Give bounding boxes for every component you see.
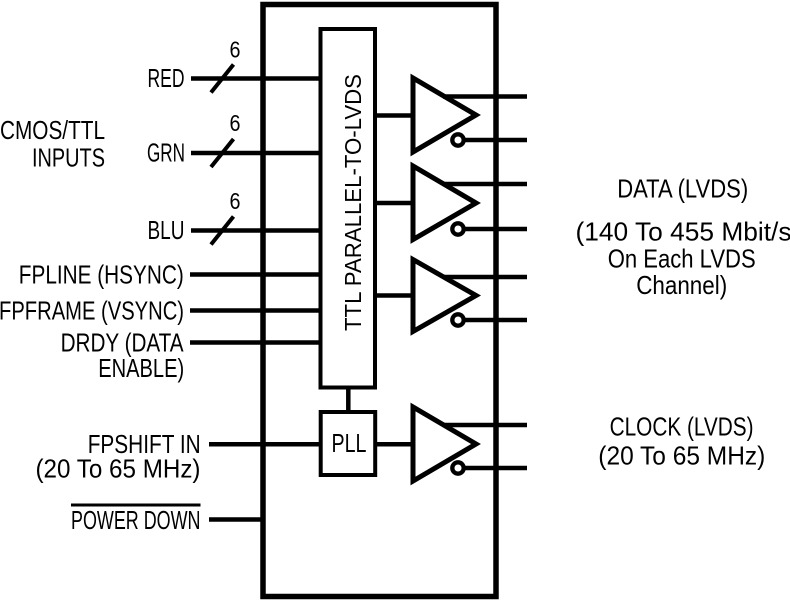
wire A3 output- [463, 318, 527, 323]
svg-text:ENABLE): ENABLE) [98, 353, 184, 383]
wire A2 output+ [443, 182, 527, 187]
wire block-to-A2 [373, 201, 414, 206]
wire A4 output+ [443, 423, 527, 428]
wire block-to-PLL [346, 388, 351, 412]
wire block-to-A3 [373, 293, 414, 298]
bus slash BLU [211, 217, 234, 245]
wire RED input [191, 76, 321, 81]
buffer A3 [413, 260, 476, 332]
svg-text:6: 6 [230, 188, 241, 214]
chip outline U1 [263, 5, 496, 597]
svg-text:RED: RED [148, 63, 185, 93]
wire A1 output+ [443, 94, 527, 99]
svg-text:6: 6 [230, 110, 241, 136]
wire FPFRAME input [190, 308, 321, 313]
bubble A3 [452, 314, 463, 325]
bubble A4 [452, 462, 463, 473]
wire POWER DOWN input [209, 517, 265, 522]
svg-text:Channel): Channel) [636, 270, 727, 300]
svg-text:TTL PARALLEL-TO-LVDS: TTL PARALLEL-TO-LVDS [340, 74, 366, 331]
wire PLL-to-A4 [375, 442, 414, 447]
svg-text:(140 To 455 Mbit/s: (140 To 455 Mbit/s [576, 217, 790, 247]
svg-text:INPUTS: INPUTS [32, 143, 105, 173]
overline POWER DOWN [71, 504, 201, 507]
wire A3 output+ [443, 275, 527, 280]
wire A2 output- [463, 227, 527, 232]
svg-text:(20 To 65 MHz): (20 To 65 MHz) [598, 441, 765, 471]
svg-text:CLOCK (LVDS): CLOCK (LVDS) [610, 412, 754, 442]
svg-text:6: 6 [230, 37, 241, 63]
svg-text:GRN: GRN [147, 138, 185, 168]
svg-text:CMOS/TTL: CMOS/TTL [0, 115, 105, 145]
buffer A4 clock [413, 407, 476, 481]
svg-text:FPFRAME (VSYNC): FPFRAME (VSYNC) [0, 296, 184, 326]
bubble A1 [452, 134, 463, 145]
svg-text:POWER DOWN: POWER DOWN [71, 505, 201, 535]
svg-text:FPLINE (HSYNC): FPLINE (HSYNC) [19, 260, 184, 290]
svg-text:PLL: PLL [332, 428, 367, 458]
wire BLU input [191, 228, 321, 233]
wire DRDY input [190, 340, 321, 345]
TTL parallel-to-LVDS block [321, 29, 376, 388]
bus slash RED [211, 65, 234, 93]
bubble A2 [452, 223, 463, 234]
svg-text:BLU: BLU [148, 215, 185, 245]
wire A1 output- [463, 138, 527, 143]
wire FPLINE input [190, 272, 321, 277]
svg-text:(20 To 65 MHz): (20 To 65 MHz) [36, 454, 201, 484]
svg-text:On Each LVDS: On Each LVDS [608, 244, 756, 274]
wire block-to-A1 [373, 113, 414, 118]
bus slash GRN [211, 139, 234, 167]
svg-text:DATA (LVDS): DATA (LVDS) [617, 174, 748, 204]
wire FPSHIFT input [209, 442, 321, 447]
PLL block [321, 412, 376, 475]
wire A4 output- [463, 466, 527, 471]
buffer A2 [413, 166, 476, 240]
buffer A1 [413, 78, 476, 152]
wire GRN input [191, 151, 321, 156]
